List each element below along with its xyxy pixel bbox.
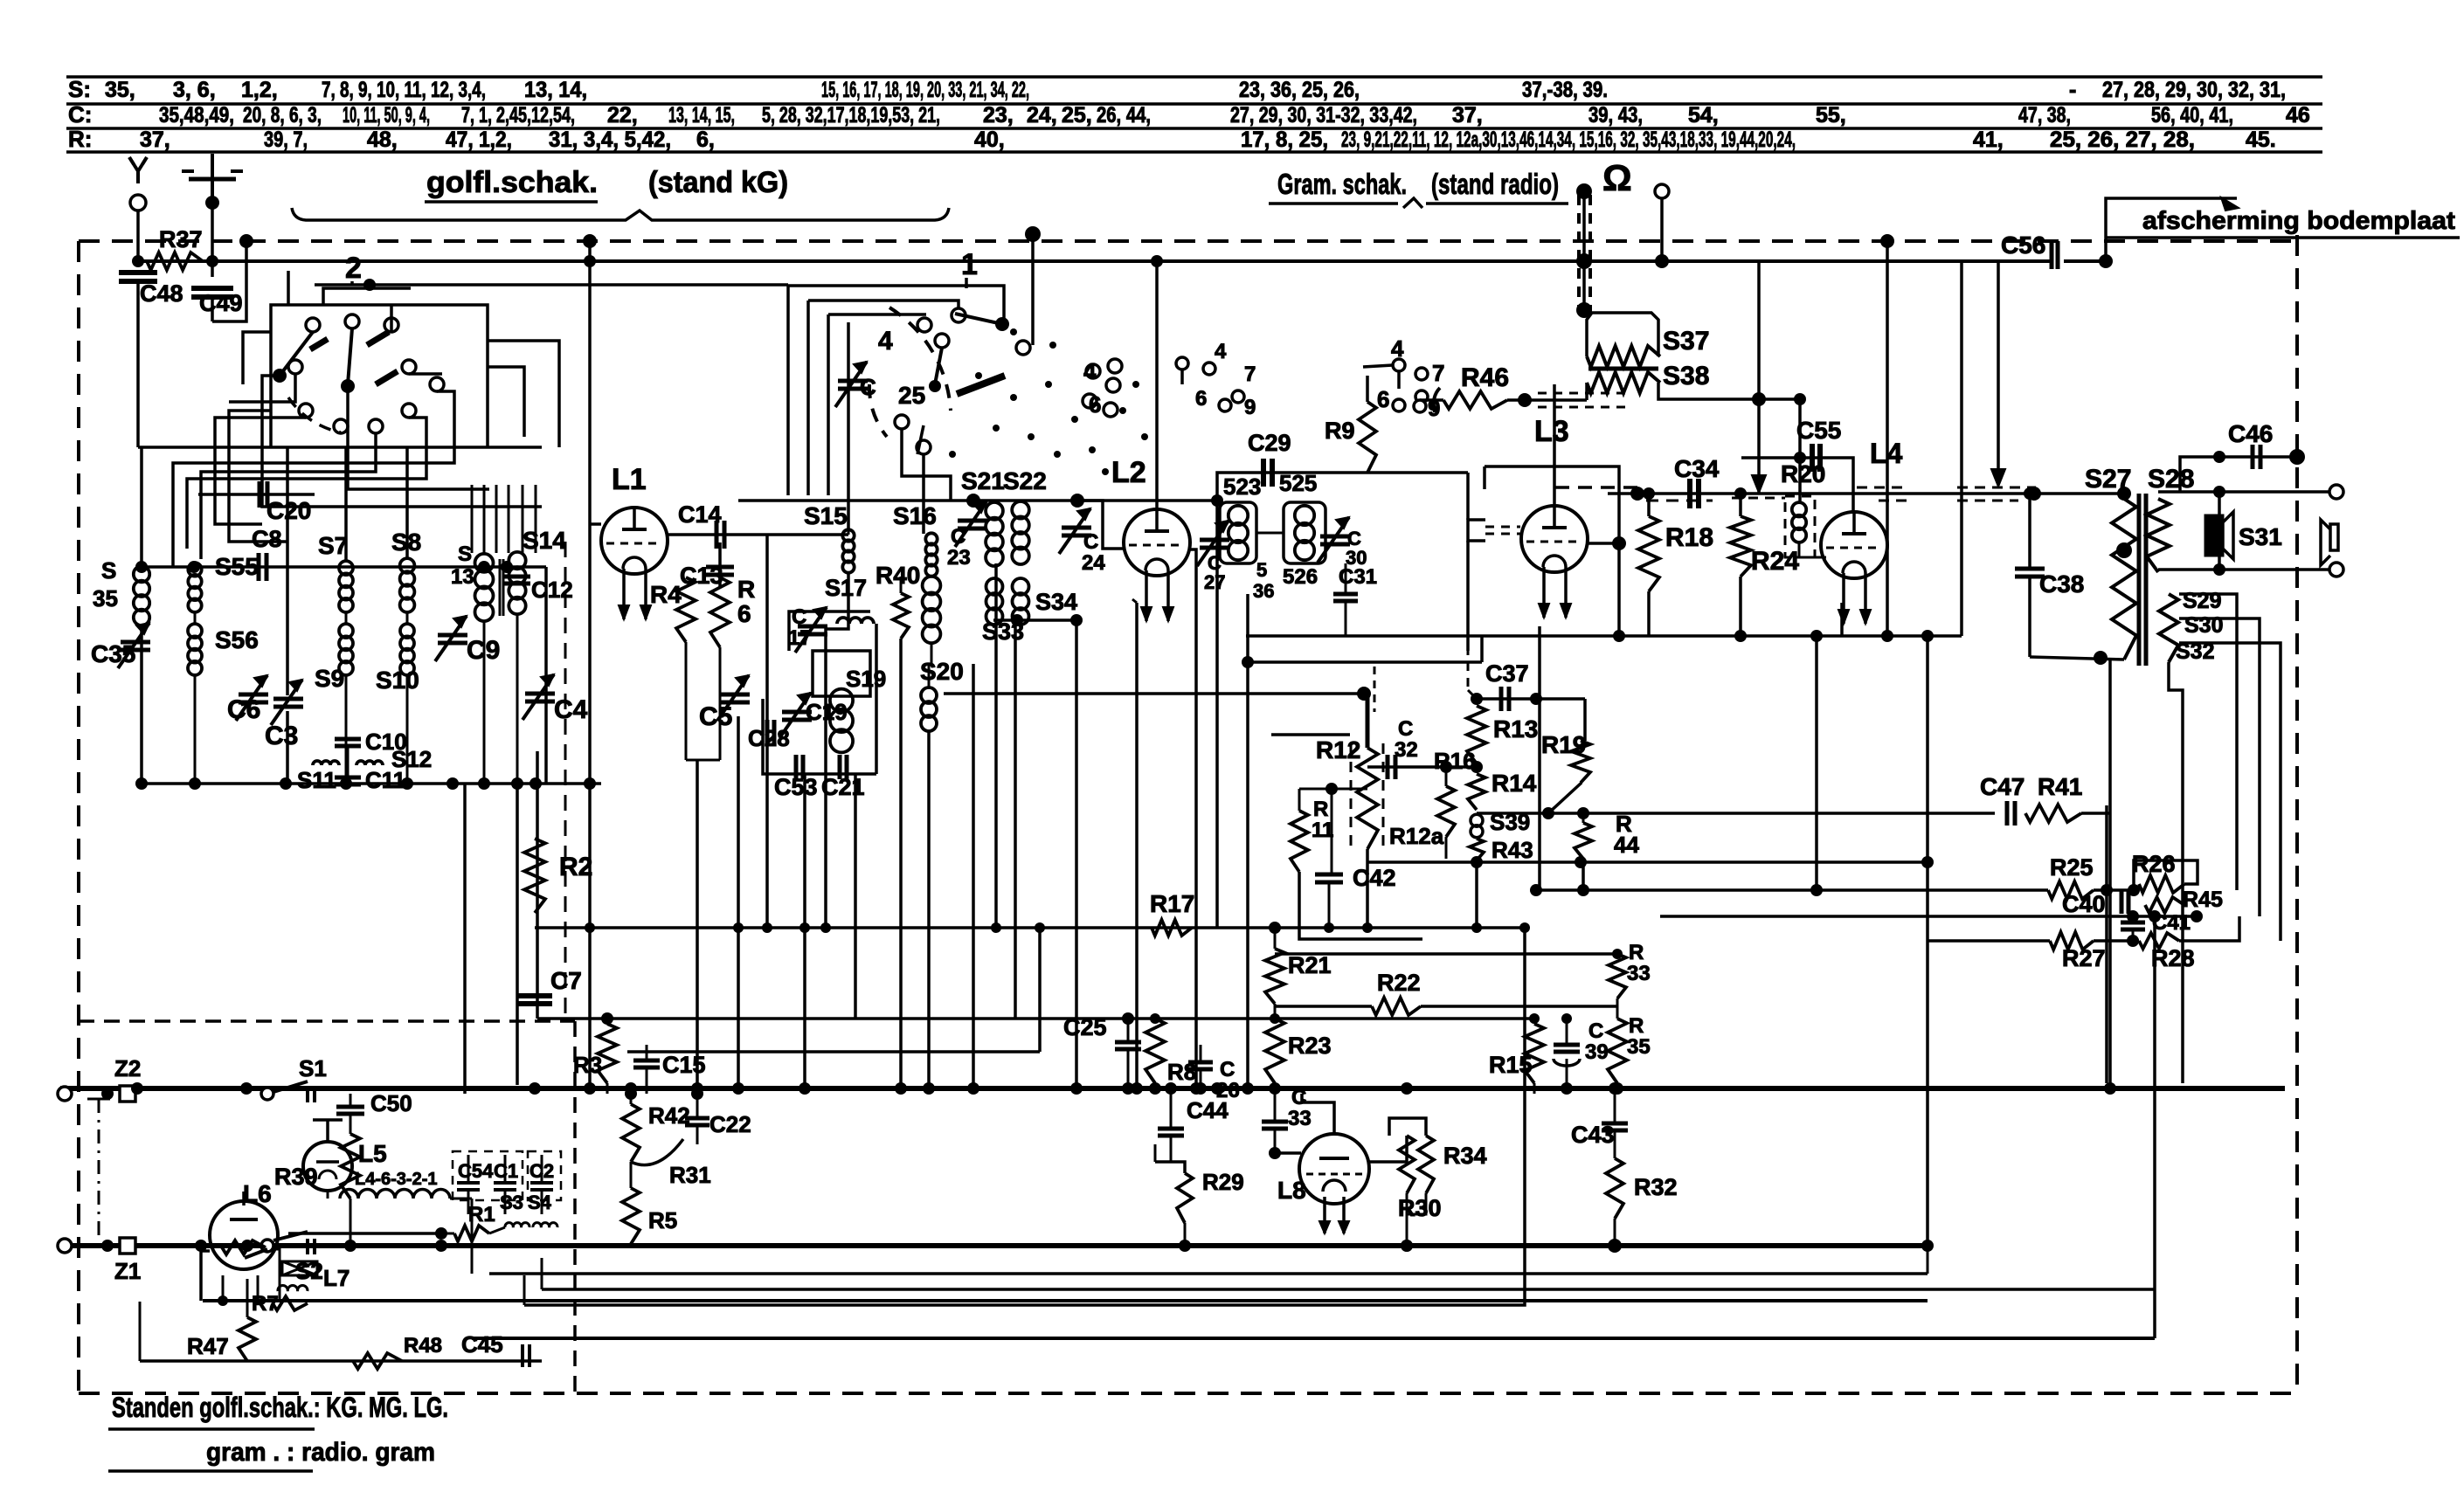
- svg-text:S4: S4: [528, 1192, 552, 1213]
- svg-text:S10: S10: [376, 667, 419, 694]
- svg-text:35: 35: [1627, 1035, 1651, 1059]
- svg-text:C: C: [1588, 1019, 1603, 1043]
- svg-text:45.: 45.: [2246, 128, 2276, 152]
- svg-text:C53: C53: [774, 774, 818, 800]
- svg-text:C20: C20: [266, 497, 311, 524]
- svg-text:23, 9,21,22,11, 12, 12a,30,13,: 23, 9,21,22,11, 12, 12a,30,13,46,14,34, …: [1341, 128, 1796, 152]
- svg-text:39, 43,: 39, 43,: [1588, 103, 1643, 128]
- svg-text:S:: S:: [68, 76, 91, 102]
- svg-text:C22: C22: [709, 1111, 751, 1137]
- svg-text:23,: 23,: [983, 103, 1014, 128]
- svg-text:R2: R2: [559, 853, 592, 881]
- svg-text:C: C: [951, 525, 966, 549]
- svg-text:C14: C14: [678, 501, 722, 528]
- svg-text:17, 8, 25,: 17, 8, 25,: [1241, 128, 1328, 152]
- svg-text:C4: C4: [554, 695, 588, 724]
- svg-text:R4: R4: [650, 581, 682, 608]
- svg-text:44: 44: [1614, 832, 1639, 858]
- svg-text:1,2,: 1,2,: [241, 78, 278, 102]
- svg-text:R48: R48: [404, 1334, 442, 1357]
- svg-text:39, 7,: 39, 7,: [264, 128, 308, 152]
- svg-text:S16: S16: [893, 502, 937, 529]
- svg-text:R: R: [1629, 941, 1644, 964]
- svg-text:S15: S15: [804, 502, 848, 529]
- svg-text:26, 44,: 26, 44,: [1097, 103, 1151, 128]
- svg-text:48,: 48,: [367, 128, 398, 152]
- svg-text:Ω: Ω: [1602, 157, 1632, 198]
- svg-text:R30: R30: [1398, 1195, 1442, 1221]
- svg-text:R25: R25: [2050, 854, 2094, 881]
- svg-text:S31: S31: [2239, 523, 2282, 550]
- svg-text:R40: R40: [876, 562, 920, 589]
- svg-text:C45: C45: [461, 1331, 503, 1357]
- svg-text:R42: R42: [648, 1102, 690, 1129]
- svg-text:S56: S56: [215, 626, 259, 653]
- svg-text:afscherming bodemplaat: afscherming bodemplaat: [2142, 207, 2455, 235]
- svg-text:R43: R43: [1492, 837, 1533, 863]
- svg-text:C12: C12: [531, 577, 573, 603]
- svg-text:7: 7: [1244, 363, 1256, 386]
- svg-text:S20: S20: [920, 658, 964, 685]
- svg-text:L4: L4: [1870, 438, 1903, 469]
- svg-text:37,: 37,: [140, 128, 170, 152]
- svg-text:40,: 40,: [974, 128, 1005, 152]
- svg-text:6: 6: [1377, 386, 1389, 412]
- svg-text:13: 13: [451, 565, 474, 589]
- svg-text:25, 26, 27, 28,: 25, 26, 27, 28,: [2050, 128, 2195, 152]
- svg-text:L1: L1: [612, 463, 647, 496]
- svg-text:R37: R37: [159, 226, 203, 252]
- svg-text:R: R: [1313, 798, 1328, 821]
- svg-text:25: 25: [898, 382, 925, 409]
- svg-text:L7: L7: [323, 1265, 350, 1291]
- svg-text:R17: R17: [1150, 890, 1194, 917]
- svg-text:47, 1,2,: 47, 1,2,: [446, 128, 512, 152]
- svg-text:S29: S29: [2183, 589, 2221, 613]
- svg-text:R23: R23: [1288, 1033, 1332, 1059]
- svg-text:R45: R45: [2183, 888, 2223, 912]
- svg-text:10, 11, 50, 9, 4,: 10, 11, 50, 9, 4,: [343, 103, 430, 128]
- svg-text:7, 8, 9, 10, 11, 12, 3,4,: 7, 8, 9, 10, 11, 12, 3,4,: [322, 78, 486, 102]
- svg-text:36: 36: [1253, 580, 1274, 602]
- svg-text:S1: S1: [299, 1055, 327, 1081]
- svg-text:R28: R28: [2151, 945, 2195, 971]
- svg-text:S3: S3: [500, 1192, 523, 1213]
- svg-text:41,: 41,: [1973, 128, 2004, 152]
- svg-text:C8: C8: [252, 526, 282, 552]
- svg-text:39: 39: [1585, 1040, 1609, 1064]
- svg-text:C38: C38: [2039, 570, 2084, 598]
- svg-text:C28: C28: [748, 725, 790, 751]
- svg-text:S34: S34: [1035, 589, 1077, 615]
- svg-text:S: S: [101, 557, 116, 584]
- svg-text:R14: R14: [1492, 770, 1537, 797]
- svg-text:R22: R22: [1377, 970, 1421, 996]
- svg-text:4: 4: [1391, 335, 1404, 362]
- svg-text:33: 33: [1627, 962, 1651, 985]
- svg-text:13, 14, 15,: 13, 14, 15,: [668, 103, 735, 128]
- svg-text:C46: C46: [2228, 420, 2273, 447]
- svg-text:S37: S37: [1663, 327, 1709, 356]
- svg-text:C49: C49: [199, 290, 243, 316]
- svg-text:46: 46: [2286, 103, 2310, 128]
- svg-text:R26: R26: [2132, 851, 2176, 877]
- svg-text:15, 16, 17, 18, 19, 20, 33, 21: 15, 16, 17, 18, 19, 20, 33, 21, 34, 22,: [821, 78, 1029, 102]
- svg-text:R5: R5: [648, 1207, 677, 1233]
- svg-text:C40: C40: [2062, 891, 2106, 917]
- svg-text:C:: C:: [68, 101, 92, 128]
- svg-text:L5: L5: [358, 1140, 387, 1167]
- svg-text:R9: R9: [1325, 418, 1355, 444]
- svg-text:47, 38,: 47, 38,: [2018, 103, 2071, 128]
- svg-text:S14: S14: [523, 527, 566, 554]
- svg-text:C: C: [1291, 1086, 1306, 1109]
- svg-text:3, 6,: 3, 6,: [173, 78, 216, 102]
- svg-text:4: 4: [1083, 358, 1097, 384]
- svg-text:L4-6-3-2-1: L4-6-3-2-1: [355, 1170, 437, 1189]
- svg-text:C42: C42: [1353, 865, 1396, 891]
- svg-text:27, 28, 29, 30, 32, 31,: 27, 28, 29, 30, 32, 31,: [2102, 78, 2286, 102]
- svg-text:13, 14,: 13, 14,: [524, 78, 587, 102]
- svg-text:55,: 55,: [1816, 103, 1846, 128]
- svg-text:27: 27: [1204, 571, 1225, 593]
- svg-text:7: 7: [1432, 360, 1444, 386]
- svg-text:R46: R46: [1461, 363, 1509, 392]
- svg-text:23: 23: [947, 546, 971, 570]
- svg-text:R13: R13: [1493, 715, 1538, 743]
- svg-text:56, 40, 41,: 56, 40, 41,: [2151, 103, 2233, 128]
- svg-text:C48: C48: [140, 280, 183, 307]
- svg-text:525: 525: [1279, 470, 1317, 496]
- svg-text:Z2: Z2: [114, 1055, 141, 1081]
- svg-text:C: C: [1398, 717, 1413, 741]
- svg-text:R24: R24: [1751, 547, 1799, 576]
- svg-text:C56: C56: [2001, 231, 2045, 259]
- svg-text:gram . : radio. gram: gram . : radio. gram: [206, 1438, 435, 1467]
- svg-text:C3: C3: [265, 722, 298, 750]
- svg-text:C9: C9: [467, 636, 500, 665]
- svg-text:R32: R32: [1634, 1174, 1678, 1200]
- svg-text:31, 3,4, 5,42,: 31, 3,4, 5,42,: [549, 128, 671, 152]
- svg-text:32: 32: [1395, 738, 1418, 762]
- svg-text:35,48,49,: 35,48,49,: [159, 103, 234, 128]
- svg-text:6: 6: [737, 600, 751, 627]
- svg-text:22,: 22,: [607, 103, 638, 128]
- svg-text:C54: C54: [458, 1160, 494, 1182]
- svg-text:C34: C34: [1674, 455, 1720, 482]
- svg-text:L3: L3: [1534, 415, 1569, 448]
- svg-text:S12: S12: [391, 746, 432, 772]
- svg-text:523: 523: [1223, 473, 1261, 500]
- svg-text:R: R: [1629, 1014, 1644, 1038]
- svg-text:23, 36, 25, 26,: 23, 36, 25, 26,: [1239, 78, 1360, 102]
- svg-text:S7: S7: [318, 532, 348, 559]
- svg-text:R18: R18: [1665, 523, 1713, 552]
- svg-text:Gram. schak.: Gram. schak.: [1277, 168, 1407, 200]
- svg-text:C50: C50: [370, 1090, 412, 1116]
- svg-text:-: -: [2069, 78, 2076, 102]
- svg-text:R29: R29: [1202, 1169, 1244, 1195]
- svg-text:35: 35: [93, 585, 118, 611]
- svg-text:C15: C15: [662, 1052, 706, 1078]
- svg-text:1: 1: [961, 248, 978, 281]
- svg-text:R16: R16: [1434, 748, 1476, 774]
- svg-text:4: 4: [1215, 340, 1227, 363]
- svg-text:24: 24: [1082, 551, 1105, 575]
- svg-text:golfl.schak.: golfl.schak.: [426, 166, 598, 199]
- svg-text:Z1: Z1: [114, 1258, 141, 1284]
- svg-text:5: 5: [1256, 559, 1267, 581]
- svg-text:R34: R34: [1443, 1143, 1487, 1169]
- svg-text:6: 6: [1089, 391, 1101, 418]
- svg-text:5, 28, 32,17,18,19,53, 21,: 5, 28, 32,17,18,19,53, 21,: [762, 103, 940, 128]
- svg-text:S9: S9: [315, 665, 344, 692]
- svg-text:R12: R12: [1316, 736, 1360, 763]
- svg-text:S19: S19: [846, 666, 886, 692]
- svg-text:C6: C6: [227, 695, 260, 724]
- svg-text:C5: C5: [699, 702, 732, 731]
- svg-text:R41: R41: [2038, 773, 2082, 800]
- svg-text:R21: R21: [1288, 952, 1332, 978]
- svg-text:C7: C7: [550, 967, 582, 994]
- svg-text:24,: 24,: [1027, 103, 1057, 128]
- svg-text:C29: C29: [1248, 430, 1291, 456]
- svg-text:R:: R:: [68, 126, 92, 152]
- svg-text:C21: C21: [821, 774, 865, 800]
- svg-text:S30: S30: [2184, 613, 2223, 638]
- svg-text:37,: 37,: [1452, 103, 1483, 128]
- svg-text:R27: R27: [2062, 945, 2106, 971]
- svg-text:(stand radio): (stand radio): [1431, 168, 1559, 200]
- svg-text:C47: C47: [1980, 773, 2024, 800]
- svg-text:R3: R3: [573, 1052, 602, 1078]
- svg-text:4: 4: [878, 327, 893, 356]
- svg-text:L2: L2: [1111, 456, 1146, 489]
- svg-text:C35: C35: [91, 640, 135, 667]
- svg-text:33: 33: [1288, 1107, 1312, 1130]
- svg-text:37,-38, 39.: 37,-38, 39.: [1522, 78, 1608, 102]
- svg-text:6: 6: [1195, 387, 1207, 411]
- svg-text:25,: 25,: [1062, 103, 1092, 128]
- svg-text:6,: 6,: [696, 128, 715, 152]
- svg-text:20, 8, 6, 3,: 20, 8, 6, 3,: [243, 103, 322, 128]
- svg-text:R31: R31: [669, 1162, 711, 1188]
- svg-text:S22: S22: [1003, 467, 1047, 494]
- svg-text:R: R: [737, 576, 755, 603]
- svg-text:R12a: R12a: [1389, 823, 1444, 849]
- svg-text:S: S: [458, 542, 472, 566]
- svg-text:S28: S28: [2148, 465, 2194, 494]
- svg-text:C55: C55: [1796, 417, 1841, 444]
- svg-text:R19: R19: [1541, 731, 1586, 758]
- svg-text:35,: 35,: [105, 78, 135, 102]
- svg-text:(stand kG): (stand kG): [648, 166, 788, 199]
- svg-text:C25: C25: [1063, 1014, 1107, 1040]
- svg-text:C: C: [1083, 530, 1098, 554]
- svg-text:S55: S55: [215, 553, 259, 580]
- svg-text:S38: S38: [1663, 362, 1709, 390]
- svg-text:R47: R47: [187, 1333, 229, 1359]
- svg-text:Standen golfl.schak.: KG. MG: Standen golfl.schak.: KG. MG. LG.: [112, 1392, 448, 1423]
- svg-text:9: 9: [1244, 396, 1256, 419]
- svg-text:S17: S17: [825, 575, 867, 601]
- svg-text:526: 526: [1283, 565, 1318, 589]
- svg-text:C37: C37: [1485, 660, 1529, 687]
- svg-text:S21: S21: [961, 467, 1005, 494]
- svg-text:S11: S11: [297, 767, 336, 793]
- svg-text:C: C: [1220, 1058, 1235, 1081]
- svg-text:2: 2: [345, 252, 362, 285]
- svg-text:54,: 54,: [1688, 103, 1719, 128]
- svg-text:7, 1, 2,45,12,54,: 7, 1, 2,45,12,54,: [461, 103, 575, 128]
- svg-text:27, 29, 30, 31-32, 33,42,: 27, 29, 30, 31-32, 33,42,: [1230, 103, 1417, 128]
- svg-text:C44: C44: [1187, 1097, 1229, 1123]
